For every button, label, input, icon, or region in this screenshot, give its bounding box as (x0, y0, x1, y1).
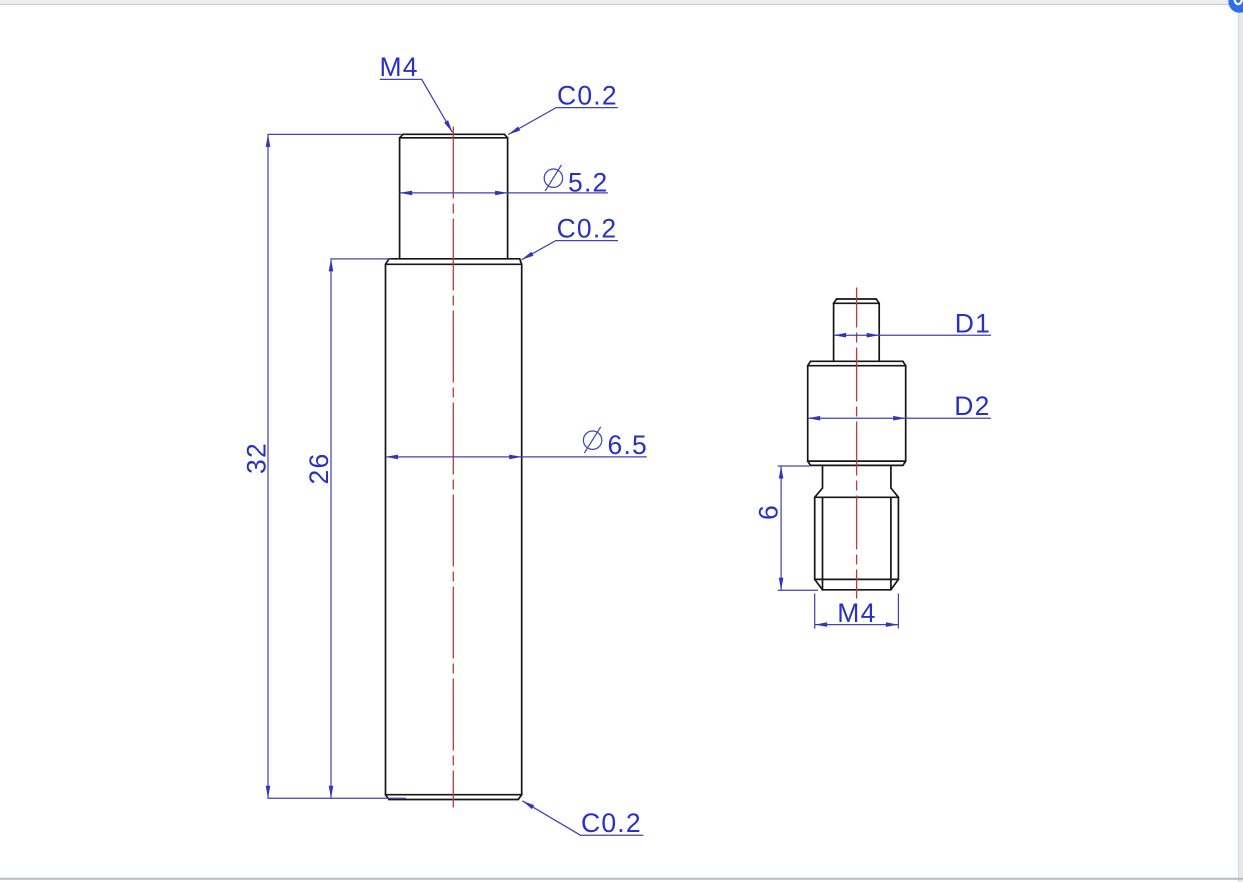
svg-text:C0.2: C0.2 (557, 81, 618, 111)
front view: stepped stud part outline (386, 134, 522, 799)
bottom page-edge line (0, 878, 1243, 880)
leader label C0.2 (top chamfer) (508, 81, 618, 135)
dimension D1 (834, 309, 992, 339)
dimension M4 (thread) (815, 594, 899, 629)
svg-text:D1: D1 (955, 309, 991, 339)
leader label C0.2 (shoulder chamfer) (522, 213, 619, 259)
svg-text:32: 32 (242, 442, 272, 474)
front view: top threaded cylinder (dia 5.2) (403, 133, 504, 135)
dimension D2 (808, 391, 991, 421)
right page-edge strip (1238, 6, 1243, 882)
svg-text:C0.2: C0.2 (557, 213, 618, 243)
dimension diameter 6.5 (386, 427, 648, 460)
front view centerline (452, 127, 454, 808)
svg-text:6.5: 6.5 (608, 430, 648, 460)
side view: neck groove (822, 465, 824, 488)
front view: main body (dia 6.5) (389, 258, 520, 260)
svg-text:26: 26 (304, 453, 334, 485)
dimension 6 (thread length) (753, 466, 818, 590)
side view: threaded section M4 (815, 496, 899, 498)
svg-text:C0.2: C0.2 (581, 808, 642, 838)
svg-text:M4: M4 (837, 598, 876, 628)
notification badge (top-right corner) (1228, 0, 1243, 13)
leader label M4 (thread callout) (380, 52, 453, 133)
svg-text:D2: D2 (954, 391, 990, 421)
svg-text:M4: M4 (380, 52, 419, 82)
dimension 32 (overall length) (242, 134, 407, 798)
dimension diameter 5.2 (400, 165, 609, 198)
top browser strip (0, 0, 1243, 5)
leader label C0.2 (bottom chamfer) (522, 801, 643, 838)
side view centerline (856, 288, 858, 599)
svg-text:6: 6 (753, 504, 783, 520)
svg-text:5.2: 5.2 (568, 168, 608, 198)
side view: middle body D2 (811, 360, 903, 362)
side view: top cylinder D1 (837, 298, 877, 300)
side view: stud part outline (808, 299, 906, 590)
dimension 26 (body length) (304, 259, 391, 798)
